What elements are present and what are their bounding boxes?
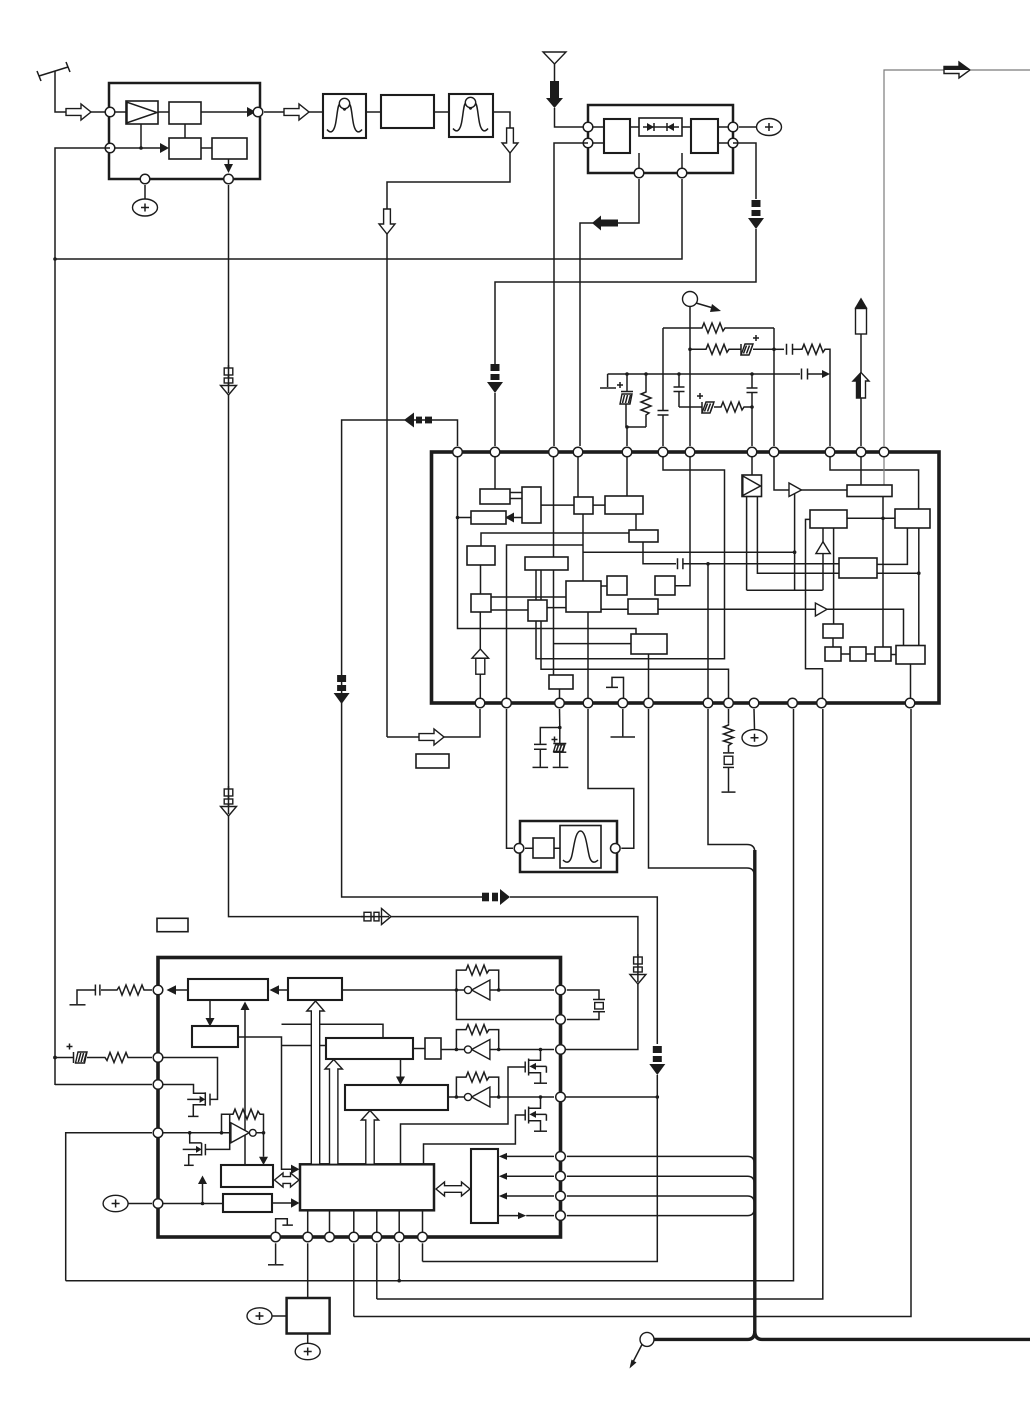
inverter INV1 with feedback resistor bbox=[342, 965, 554, 1000]
wire to IC pin 495 bbox=[495, 229, 756, 364]
bandpass filter FL1 bbox=[323, 94, 366, 138]
inverter INV3 with feedback resistor bbox=[448, 1072, 554, 1107]
IC top pins bbox=[453, 447, 889, 457]
block U8 bbox=[223, 1194, 272, 1212]
segmented solid down arrow bbox=[748, 200, 764, 229]
block F bbox=[528, 600, 547, 621]
node bbox=[625, 372, 629, 376]
wire bbox=[201, 147, 212, 149]
wire y590 bbox=[747, 589, 823, 591]
IC bottom pins bbox=[475, 698, 915, 708]
wire bbox=[184, 124, 186, 138]
wire M to cap bbox=[643, 542, 676, 564]
link U4-U5 bbox=[413, 1048, 425, 1050]
gray line IC pin 884 to top right output bbox=[884, 70, 944, 446]
block K bbox=[574, 497, 593, 514]
block U10 bbox=[471, 1149, 498, 1223]
wire F to O bbox=[547, 607, 566, 609]
node bbox=[881, 517, 885, 521]
wire pin792 long return bbox=[66, 709, 794, 1281]
wire D to E bbox=[480, 565, 482, 594]
bottom pins bbox=[271, 1232, 428, 1242]
wire O to pin588 bbox=[587, 612, 589, 703]
bottom pin stubs into U9 bbox=[308, 1210, 423, 1237]
ext: supply + on pin1203 bbox=[103, 1195, 152, 1211]
ext: rail corner into pin1084 bbox=[55, 1084, 152, 1086]
wire branch to S bbox=[554, 643, 632, 645]
block L bbox=[605, 496, 643, 514]
wire cap to X1 bbox=[683, 563, 839, 565]
wire bbox=[555, 108, 589, 127]
double arrow U7-U9 bbox=[275, 1173, 300, 1187]
wire F stub2 to pin727 bbox=[541, 621, 729, 703]
resistor R11 row1 bbox=[663, 323, 774, 333]
ext: resistor+cap+ground on pin990 bbox=[70, 985, 153, 1005]
wire bbox=[681, 153, 683, 173]
RF front-end unit U101 bbox=[109, 83, 260, 179]
wire pot down to IC pin 690 bbox=[689, 307, 691, 447]
block S2 bbox=[850, 647, 866, 661]
ground GND11 bbox=[600, 374, 616, 388]
wire N to F double link bbox=[536, 570, 541, 600]
block S1 bbox=[825, 647, 841, 661]
arrows into U10 from bus pins bbox=[499, 1153, 554, 1200]
segmented solid down arrow on x657 bbox=[649, 1046, 665, 1075]
MOSFET Q3 (left upper) bbox=[158, 1058, 218, 1117]
x830 to pin bbox=[829, 374, 831, 446]
wire INV3 row to x657 bbox=[565, 1096, 657, 1098]
ceramic filter CF1 bbox=[514, 821, 620, 872]
block U103b bbox=[691, 119, 718, 153]
arrow U1 to U3 bbox=[206, 1000, 215, 1027]
wire pin559 to decoupling caps bbox=[559, 709, 561, 728]
wire bbox=[423, 1075, 658, 1262]
wire to IF path bbox=[493, 112, 510, 128]
internal wire pin1019 to INV1 input bbox=[456, 990, 554, 1020]
arrow U4 to U6 bbox=[396, 1059, 405, 1085]
electrolytic cap C12 (+, hatched) bbox=[741, 335, 774, 355]
pin bbox=[583, 138, 593, 148]
block O bbox=[566, 581, 601, 612]
wire B to C with left arrow bbox=[505, 513, 522, 523]
wire pin307 to regulator bbox=[307, 1243, 309, 1298]
amp2 triangle bbox=[815, 603, 827, 616]
block U4 bbox=[326, 1038, 413, 1059]
wire B to K to L bbox=[541, 504, 605, 506]
solid down arrow on antenna feed bbox=[546, 81, 563, 108]
wires inside U103 bbox=[588, 126, 733, 128]
wire I to S3 bbox=[882, 497, 884, 648]
thick bus vertical and bottom run bbox=[653, 850, 1030, 1339]
main IC U201 outline bbox=[432, 452, 940, 703]
wire long vertical to pin 480 row bbox=[386, 234, 388, 737]
branch: electrolytic C17 + resistor R15 bbox=[679, 393, 752, 413]
segmented solid right arrow on y897 bbox=[482, 889, 510, 905]
block U7 bbox=[221, 1165, 273, 1187]
open up arrow on x480 bbox=[472, 649, 489, 674]
x861 tuning indicator leg bbox=[853, 298, 869, 447]
block C bbox=[471, 511, 506, 524]
pin bbox=[728, 138, 738, 148]
block E bbox=[471, 594, 491, 612]
wire y552 bbox=[583, 551, 795, 553]
diode pair D1 D2 bbox=[639, 118, 682, 136]
block U3 bbox=[192, 1026, 238, 1047]
wire pin708 to bus start bbox=[708, 709, 755, 852]
block S bbox=[631, 634, 667, 654]
half-filled right arrow bbox=[944, 62, 970, 78]
amplifier A1 bbox=[126, 101, 158, 124]
electrolytic cap C23 with ground bbox=[552, 728, 569, 768]
inverter INV2 with feedback resistor bbox=[441, 1025, 554, 1060]
wire y897 to down leg bbox=[510, 897, 657, 1044]
series cap C14 on rail bbox=[802, 369, 831, 380]
resistor R13 bbox=[800, 344, 830, 374]
IF arrow 2 (open, down) bbox=[379, 209, 395, 234]
wires bottom pins to return lines bbox=[353, 1243, 355, 1316]
node bbox=[706, 562, 710, 566]
wire O to R and amp2 bbox=[601, 608, 815, 610]
pin bbox=[583, 122, 593, 132]
wire pin2 to left rail bbox=[55, 148, 110, 259]
wire filter output detour to pin588 bbox=[588, 709, 634, 848]
wire U4 top jog bbox=[282, 1024, 384, 1038]
wire x387 to pin480 with open right arrow bbox=[387, 709, 480, 745]
pin bbox=[105, 107, 115, 117]
open segmented down arrow bbox=[221, 365, 237, 395]
block U101a bbox=[169, 102, 201, 124]
wire pin627 to L bbox=[626, 452, 628, 496]
wire pin578 to K bbox=[577, 452, 579, 497]
pin bbox=[224, 174, 234, 184]
potentiometer / adjust circle bbox=[683, 292, 722, 313]
wire pin884 to I (gray) bbox=[883, 452, 885, 485]
block B bbox=[522, 487, 541, 523]
buffer triangle (up) bbox=[816, 542, 830, 554]
wire to bottom pin 708 bbox=[707, 564, 709, 703]
MOSFET Q2 (lower right) bbox=[424, 1095, 548, 1164]
wire pin754 to supply bbox=[742, 709, 767, 746]
segmented solid down arrow on x342 bbox=[334, 675, 350, 704]
wire with arrowhead bbox=[110, 143, 169, 153]
block U9 (control) bbox=[300, 1164, 434, 1210]
arrow down to AGC pin bbox=[224, 159, 233, 173]
external 4 wires pins to bus bbox=[567, 1156, 754, 1215]
wire U103 bottom pin2 to long rail bbox=[55, 179, 682, 259]
wire S1-S2-S3-W links bbox=[841, 653, 896, 656]
MOSFET Q4 (left lower) bbox=[183, 1114, 230, 1165]
ceramic cap C22 with ground bbox=[533, 728, 560, 768]
wire bbox=[91, 111, 110, 113]
arrow out U10 to bus pin bbox=[498, 1212, 554, 1219]
node bbox=[656, 1095, 660, 1099]
wire bbox=[494, 393, 496, 446]
wire pin663 jog bbox=[536, 452, 725, 659]
wire amp1 out to I bbox=[802, 489, 848, 491]
crystal X2 across pins bbox=[567, 990, 605, 1020]
tall open arrow U9 to U2 bbox=[307, 1001, 324, 1164]
wire E to O bbox=[491, 596, 566, 598]
block U101b bbox=[169, 138, 201, 159]
rail y374 bbox=[608, 373, 800, 375]
up arrow into U1 bbox=[241, 1002, 250, 1166]
wire W to pin910 bbox=[910, 664, 912, 703]
open segmented right arrow on AGC feed bbox=[361, 909, 391, 925]
wire J to V bbox=[833, 528, 835, 624]
wire pin506 jog bbox=[507, 545, 584, 703]
left rail down the page bbox=[54, 259, 56, 1085]
wire H to W bbox=[918, 528, 920, 646]
node bbox=[139, 146, 143, 150]
ext: pin1132 loop down to return line bbox=[66, 1133, 152, 1281]
wire bbox=[387, 153, 510, 209]
block U103a bbox=[604, 119, 630, 153]
wire U103 pin2l to IC pin 553 bbox=[554, 143, 588, 446]
wire pin553 through N chain bbox=[553, 452, 555, 675]
regulator block bbox=[287, 1298, 330, 1334]
node bbox=[53, 257, 57, 261]
wire U3 to U9 with arrow bbox=[238, 1037, 300, 1174]
amp1 triangle bbox=[789, 483, 802, 497]
block H bbox=[895, 509, 930, 528]
wire V to S1 bbox=[832, 638, 834, 647]
wire with arrowhead to output pin bbox=[201, 107, 256, 117]
node bbox=[793, 550, 797, 554]
bandpass filter FL2 bbox=[449, 94, 493, 137]
pin bbox=[634, 168, 644, 178]
signal arrow (open, right) to filter chain bbox=[284, 104, 309, 120]
left pins bbox=[153, 985, 163, 1208]
tall open arrow U9 to U4 bbox=[325, 1060, 342, 1165]
MOSFET Q1 (upper right) bbox=[401, 1048, 548, 1165]
supply + left bbox=[247, 1308, 287, 1324]
resistor R14 (vertical) bbox=[641, 374, 651, 427]
right pins bbox=[556, 985, 566, 1220]
node bbox=[456, 516, 460, 520]
block I bbox=[847, 485, 892, 497]
wire U103 bottom pin1 path with left arrow bbox=[580, 179, 639, 446]
IF arrow (open, down) bbox=[502, 128, 518, 153]
microcontroller U301 outline bbox=[158, 958, 561, 1238]
AGC line from U101 down with open segmented arrows bbox=[229, 185, 379, 917]
pin bbox=[253, 107, 263, 117]
node bbox=[397, 1279, 401, 1283]
open segmented down arrow bbox=[221, 786, 237, 816]
wire AGC to lower unit bbox=[391, 917, 638, 956]
block U5 bbox=[425, 1038, 441, 1059]
cap C16 bbox=[674, 374, 685, 407]
node bbox=[750, 372, 754, 376]
wire branch to U4 bbox=[282, 1045, 327, 1047]
wire bbox=[110, 111, 126, 113]
ground stub pin275 bbox=[268, 1243, 284, 1265]
solid left arrow bbox=[592, 216, 618, 231]
tall open arrow U9 to U6 bbox=[361, 1111, 378, 1165]
wire pin821 long return bbox=[377, 709, 823, 1299]
open segmented down arrow bbox=[630, 954, 646, 984]
block A bbox=[480, 489, 510, 504]
inverter INV4 (bubble right) with feedback resistor bbox=[158, 1109, 268, 1165]
ext: resistor + electrolytic on pin1057 bbox=[53, 1044, 152, 1064]
step symbol at pin275 bbox=[276, 1219, 293, 1237]
wire E to F bbox=[491, 609, 528, 611]
wire amp2 out bbox=[827, 609, 904, 645]
wire bbox=[434, 111, 449, 113]
block U1 with left arrow to pin bbox=[167, 979, 269, 1000]
wire J to up-triangle to y590 bbox=[822, 528, 824, 542]
pin bbox=[677, 168, 687, 178]
antenna ANT1 bbox=[37, 62, 70, 112]
wire T to pin559 bbox=[559, 689, 561, 703]
wire X1 right to H bbox=[876, 528, 907, 564]
electrolytic cap C15 (+, hatched, vertical) bbox=[617, 374, 633, 427]
block S3 bbox=[875, 647, 891, 661]
block R bbox=[628, 599, 658, 614]
control line x342 from IC pin457 bbox=[342, 420, 482, 897]
node bbox=[558, 726, 562, 730]
wire amp1 node down bbox=[794, 492, 796, 591]
row2: resistor R12 bbox=[690, 344, 741, 354]
block M bbox=[629, 530, 658, 542]
segmented solid left arrow bbox=[404, 413, 432, 428]
wire L to M bbox=[635, 514, 637, 530]
pin bbox=[728, 122, 738, 132]
wire U103 pin2r down bbox=[733, 143, 756, 199]
wire bbox=[638, 153, 640, 173]
block U6 bbox=[345, 1085, 448, 1110]
spare block rectangle 2 bbox=[157, 918, 188, 931]
supply + bottom bbox=[295, 1334, 320, 1360]
step symbol bbox=[606, 677, 624, 703]
wire joining C15/R14 to pin 627 bbox=[625, 425, 646, 446]
wire J left hang bbox=[806, 519, 823, 703]
block P bbox=[607, 576, 627, 595]
block U101c bbox=[212, 138, 247, 159]
block U102 bbox=[381, 95, 434, 128]
x752 leg with cap C18 bbox=[747, 374, 758, 446]
block X1 bbox=[839, 558, 877, 578]
wire to block C bbox=[458, 517, 472, 519]
antenna switch unit U103 bbox=[588, 105, 733, 173]
wire pin830 jog to H bbox=[830, 452, 919, 509]
block V bbox=[823, 624, 843, 638]
block J bbox=[810, 510, 847, 528]
node bbox=[677, 372, 681, 376]
wire E to pin480 bbox=[479, 612, 481, 703]
wire bbox=[822, 554, 824, 591]
wire bbox=[565, 984, 638, 1050]
pin bbox=[105, 143, 115, 153]
spare block rectangle bbox=[416, 754, 449, 768]
series cap C13 bbox=[774, 344, 800, 355]
block W bbox=[896, 646, 925, 665]
wire x663 down with capacitor C11 bbox=[658, 328, 669, 446]
wire K to O bbox=[582, 514, 584, 581]
wire bbox=[264, 111, 284, 113]
wire x774 down to pin bbox=[773, 328, 775, 446]
wire bbox=[158, 111, 169, 113]
wire J to H bbox=[847, 517, 895, 519]
wire pin622 ground stub bbox=[611, 709, 636, 737]
supply node + bbox=[739, 119, 782, 136]
node bbox=[688, 348, 692, 352]
wire pin648 to bus bbox=[649, 709, 755, 875]
block T bbox=[549, 675, 573, 689]
A-B links bbox=[510, 493, 522, 499]
wire pin506 to ceramic filter bbox=[507, 709, 514, 848]
wire D jog y533 bbox=[481, 533, 629, 546]
wire pin495 to A bbox=[494, 452, 496, 489]
node bbox=[644, 372, 648, 376]
supply node + bbox=[133, 185, 158, 216]
block N bbox=[525, 557, 568, 570]
wire bbox=[309, 111, 323, 113]
limiter box with triangle bbox=[742, 475, 762, 497]
pin bbox=[140, 174, 150, 184]
cap C21 bbox=[678, 558, 683, 569]
wire pin861 to I bbox=[860, 452, 862, 485]
wire pin752 to tri-box bbox=[751, 452, 753, 475]
up stub arrow on pin1203 row bbox=[158, 1176, 223, 1206]
arrow U8 to U9 bbox=[272, 1198, 300, 1207]
wire pin690 to Q bbox=[675, 452, 690, 586]
wire S to pin648 bbox=[648, 654, 650, 703]
block Q bbox=[655, 576, 675, 595]
signal arrow (open, right) into RF unit bbox=[66, 104, 91, 120]
wire bbox=[366, 111, 381, 113]
wire pin727 RC to ground bbox=[722, 709, 736, 792]
wire O to P bbox=[601, 585, 607, 587]
wire pin910 long return bbox=[354, 709, 911, 1317]
segmented solid down arrow bbox=[487, 364, 503, 393]
wire bbox=[140, 124, 142, 148]
block U2 with arrow to U1 bbox=[270, 978, 343, 1000]
antenna ANT2 bbox=[543, 52, 566, 81]
tri-box outputs bbox=[747, 497, 840, 591]
wire pin457 net bbox=[458, 452, 637, 634]
block D bbox=[467, 546, 495, 565]
node bbox=[772, 348, 776, 352]
double arrow U9-U10 bbox=[436, 1182, 470, 1196]
wire amp1 input bbox=[774, 452, 789, 490]
probe circle with arrow bbox=[630, 1332, 655, 1368]
